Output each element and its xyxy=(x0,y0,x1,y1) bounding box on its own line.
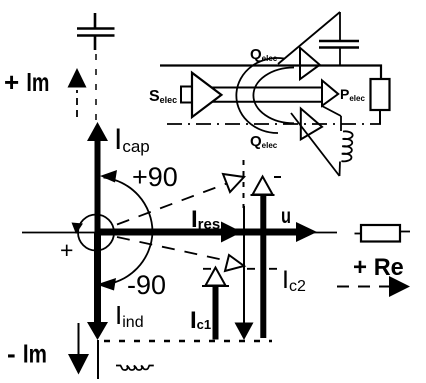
arrow S (hollow triangle) xyxy=(192,73,221,117)
phasor Ic1 (hollow head) xyxy=(202,268,229,340)
svg-text:Iind: Iind xyxy=(115,300,144,331)
svg-text:Ires: Ires xyxy=(191,206,220,233)
phasor Icap xyxy=(87,122,108,232)
thin arrow down (subtracted compensation current) xyxy=(235,206,254,340)
dotted baseline at phasor feet xyxy=(104,340,272,342)
svg-text:Pelec: Pelec xyxy=(340,86,365,103)
phasor Ic2 (hollow head) xyxy=(251,177,275,339)
wire: Im axis below Iind arrowhead xyxy=(97,340,99,379)
svg-text:+ Re: + Re xyxy=(353,254,404,281)
phasor u / Ires shaft xyxy=(98,229,300,236)
rotation direction circle at origin xyxy=(72,215,115,251)
svg-text:+ Im: + Im xyxy=(4,67,49,97)
svg-text:-90: -90 xyxy=(127,270,166,300)
wire: return line (dash-dot) xyxy=(167,123,381,125)
svg-text:- Im: - Im xyxy=(7,339,47,369)
svg-text:Qelec: Qelec xyxy=(250,133,278,150)
dashed level line at lower phasor tip xyxy=(203,268,285,270)
hollow arrowhead lower dashed phasor xyxy=(225,255,244,271)
reactive power loop outer arc xyxy=(236,58,284,133)
reactive power loop inner arc xyxy=(253,68,294,124)
capacitor branch with triangle flow line xyxy=(278,12,359,66)
arrow shaft S to P (double line) xyxy=(212,87,322,89)
dotted projection line vertical at u tip level xyxy=(243,160,245,208)
+Re dashed axis arrow xyxy=(337,276,410,297)
resistor load (vertical) xyxy=(371,79,390,110)
arrowhead Ires xyxy=(221,222,242,243)
svg-text:Ic2: Ic2 xyxy=(282,266,306,295)
inductor branch with triangle flow line xyxy=(291,106,353,176)
svg-text:Selec: Selec xyxy=(149,88,177,105)
wire: real axis xyxy=(22,232,337,234)
arc -90 with arrowhead xyxy=(97,232,153,291)
arrow Q upper (hollow triangle) xyxy=(300,48,320,79)
wire: dashed Im axis segment below capacitor xyxy=(95,54,97,121)
svg-text:Ic1: Ic1 xyxy=(190,307,211,334)
-Im axis arrow xyxy=(68,323,89,375)
+Im axis arrow xyxy=(68,68,87,117)
arrow P (hollow triangle) xyxy=(322,80,338,105)
arrow Q lower (hollow triangle) xyxy=(301,109,322,140)
dashed phasor upper (compensated current) xyxy=(117,180,236,225)
svg-text:+90: +90 xyxy=(132,162,178,192)
source box xyxy=(181,87,192,103)
resistor R (resistive region marker, right) xyxy=(355,225,411,242)
dashed level line at upper phasor tip xyxy=(274,176,281,178)
dashed phasor lower (compensated current) xyxy=(117,237,233,262)
hollow arrowhead upper dashed phasor xyxy=(223,174,244,192)
phasor Iind xyxy=(87,232,108,340)
svg-text:u: u xyxy=(281,205,291,228)
wire: resistor to return xyxy=(379,110,381,124)
wire: top bus to load resistor xyxy=(160,66,381,80)
arrowhead u xyxy=(296,222,317,242)
inductor L (inductive region marker, bottom) xyxy=(116,366,154,371)
capacitor C (capacitive region marker, top) xyxy=(77,13,115,50)
svg-text:Icap: Icap xyxy=(114,123,150,156)
svg-text:+: + xyxy=(60,237,73,263)
arc +90 with arrowhead xyxy=(100,170,153,232)
